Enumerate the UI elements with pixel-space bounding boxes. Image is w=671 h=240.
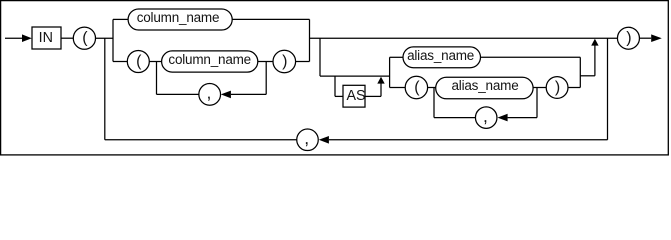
column loop wire left	[157, 93, 199, 95]
wire aliasrowA left	[390, 56, 403, 58]
column branch split vertical	[112, 19, 114, 61]
wire aliasrowB b	[533, 87, 546, 89]
wire paren to column branch	[96, 37, 114, 39]
circle open-paren main	[73, 27, 95, 49]
keyword box IN	[32, 27, 61, 49]
svg-text:alias_name: alias_name	[451, 78, 518, 93]
wire to AS box	[335, 95, 343, 97]
svg-text:column_name: column_name	[168, 52, 251, 67]
wire row2 left	[113, 61, 127, 63]
alias bypass wire	[320, 75, 390, 77]
wire aliasrowA right	[481, 56, 581, 58]
circle close-paren main	[617, 27, 639, 49]
exit arrowhead	[651, 34, 662, 42]
oval column_name row2	[162, 51, 258, 72]
wire row2 a	[149, 61, 161, 63]
svg-text:,: ,	[206, 83, 211, 103]
bottom loop arrowhead	[319, 136, 329, 144]
wire row1 right	[232, 18, 309, 20]
column loop arrowhead	[221, 91, 231, 99]
entry arrowhead	[22, 34, 32, 42]
alias section drop vertical	[319, 38, 321, 76]
AS merge vertical	[380, 83, 382, 96]
svg-text:,: ,	[483, 106, 488, 126]
oval alias_name rowA	[403, 47, 481, 68]
main rail wire	[310, 37, 618, 39]
wire row2 b	[258, 61, 273, 63]
bottom loop wire left	[105, 139, 297, 141]
alias choice split vertical	[389, 57, 391, 87]
exit wire	[639, 37, 651, 39]
column loop left vertical	[156, 62, 158, 95]
wire row1 left	[113, 18, 128, 20]
keyword box AS	[343, 85, 365, 107]
bottom loop wire right	[329, 139, 608, 141]
alias merge wire	[580, 75, 595, 77]
circle comma alias loop	[475, 107, 497, 129]
column branch join vertical	[309, 19, 311, 61]
wire aliasrowB right	[568, 87, 580, 89]
wire AS box out	[365, 95, 381, 97]
wire aliasrowB a	[428, 87, 436, 89]
circle close-paren row2	[273, 50, 296, 73]
alias loop arrowhead	[498, 114, 508, 122]
alias loop wire right	[508, 117, 537, 119]
wire IN to open-paren	[61, 37, 73, 39]
bottom loop right vertical	[607, 38, 609, 140]
svg-text:(: (	[414, 79, 420, 96]
AS drop vertical	[334, 76, 336, 96]
circle close-paren rowB	[546, 77, 568, 99]
AS merge up arrowhead	[377, 77, 384, 84]
svg-text:column_name: column_name	[137, 10, 220, 25]
entry wire	[5, 37, 22, 39]
alias loop wire left	[434, 117, 476, 119]
oval column_name row1	[128, 9, 232, 30]
alias loop left vertical	[433, 88, 435, 118]
svg-text:alias_name: alias_name	[407, 48, 474, 63]
svg-text:): )	[555, 79, 560, 96]
circle comma bottom loop	[297, 129, 319, 151]
svg-text:(: (	[82, 30, 88, 47]
svg-text:(: (	[136, 53, 142, 70]
svg-text:): )	[282, 53, 287, 70]
column loop wire right	[231, 93, 266, 95]
svg-text:AS: AS	[346, 88, 365, 104]
column loop right vertical	[265, 62, 267, 95]
alias merge vertical	[594, 45, 596, 75]
frame border	[1, 1, 669, 155]
wire aliasrowB left	[390, 87, 406, 89]
svg-text:,: ,	[304, 128, 309, 148]
circle open-paren row2	[127, 51, 149, 73]
alias choice join vertical	[579, 57, 581, 87]
bottom loop left vertical	[104, 38, 106, 140]
oval alias_name rowB	[436, 77, 533, 99]
wire row2 right	[296, 61, 310, 63]
circle open-paren rowB	[405, 76, 427, 98]
circle comma column loop	[199, 84, 221, 106]
svg-text:): )	[626, 30, 631, 47]
svg-text:IN: IN	[39, 30, 53, 46]
alias loop right vertical	[536, 88, 538, 118]
alias merge up arrowhead	[591, 39, 598, 46]
